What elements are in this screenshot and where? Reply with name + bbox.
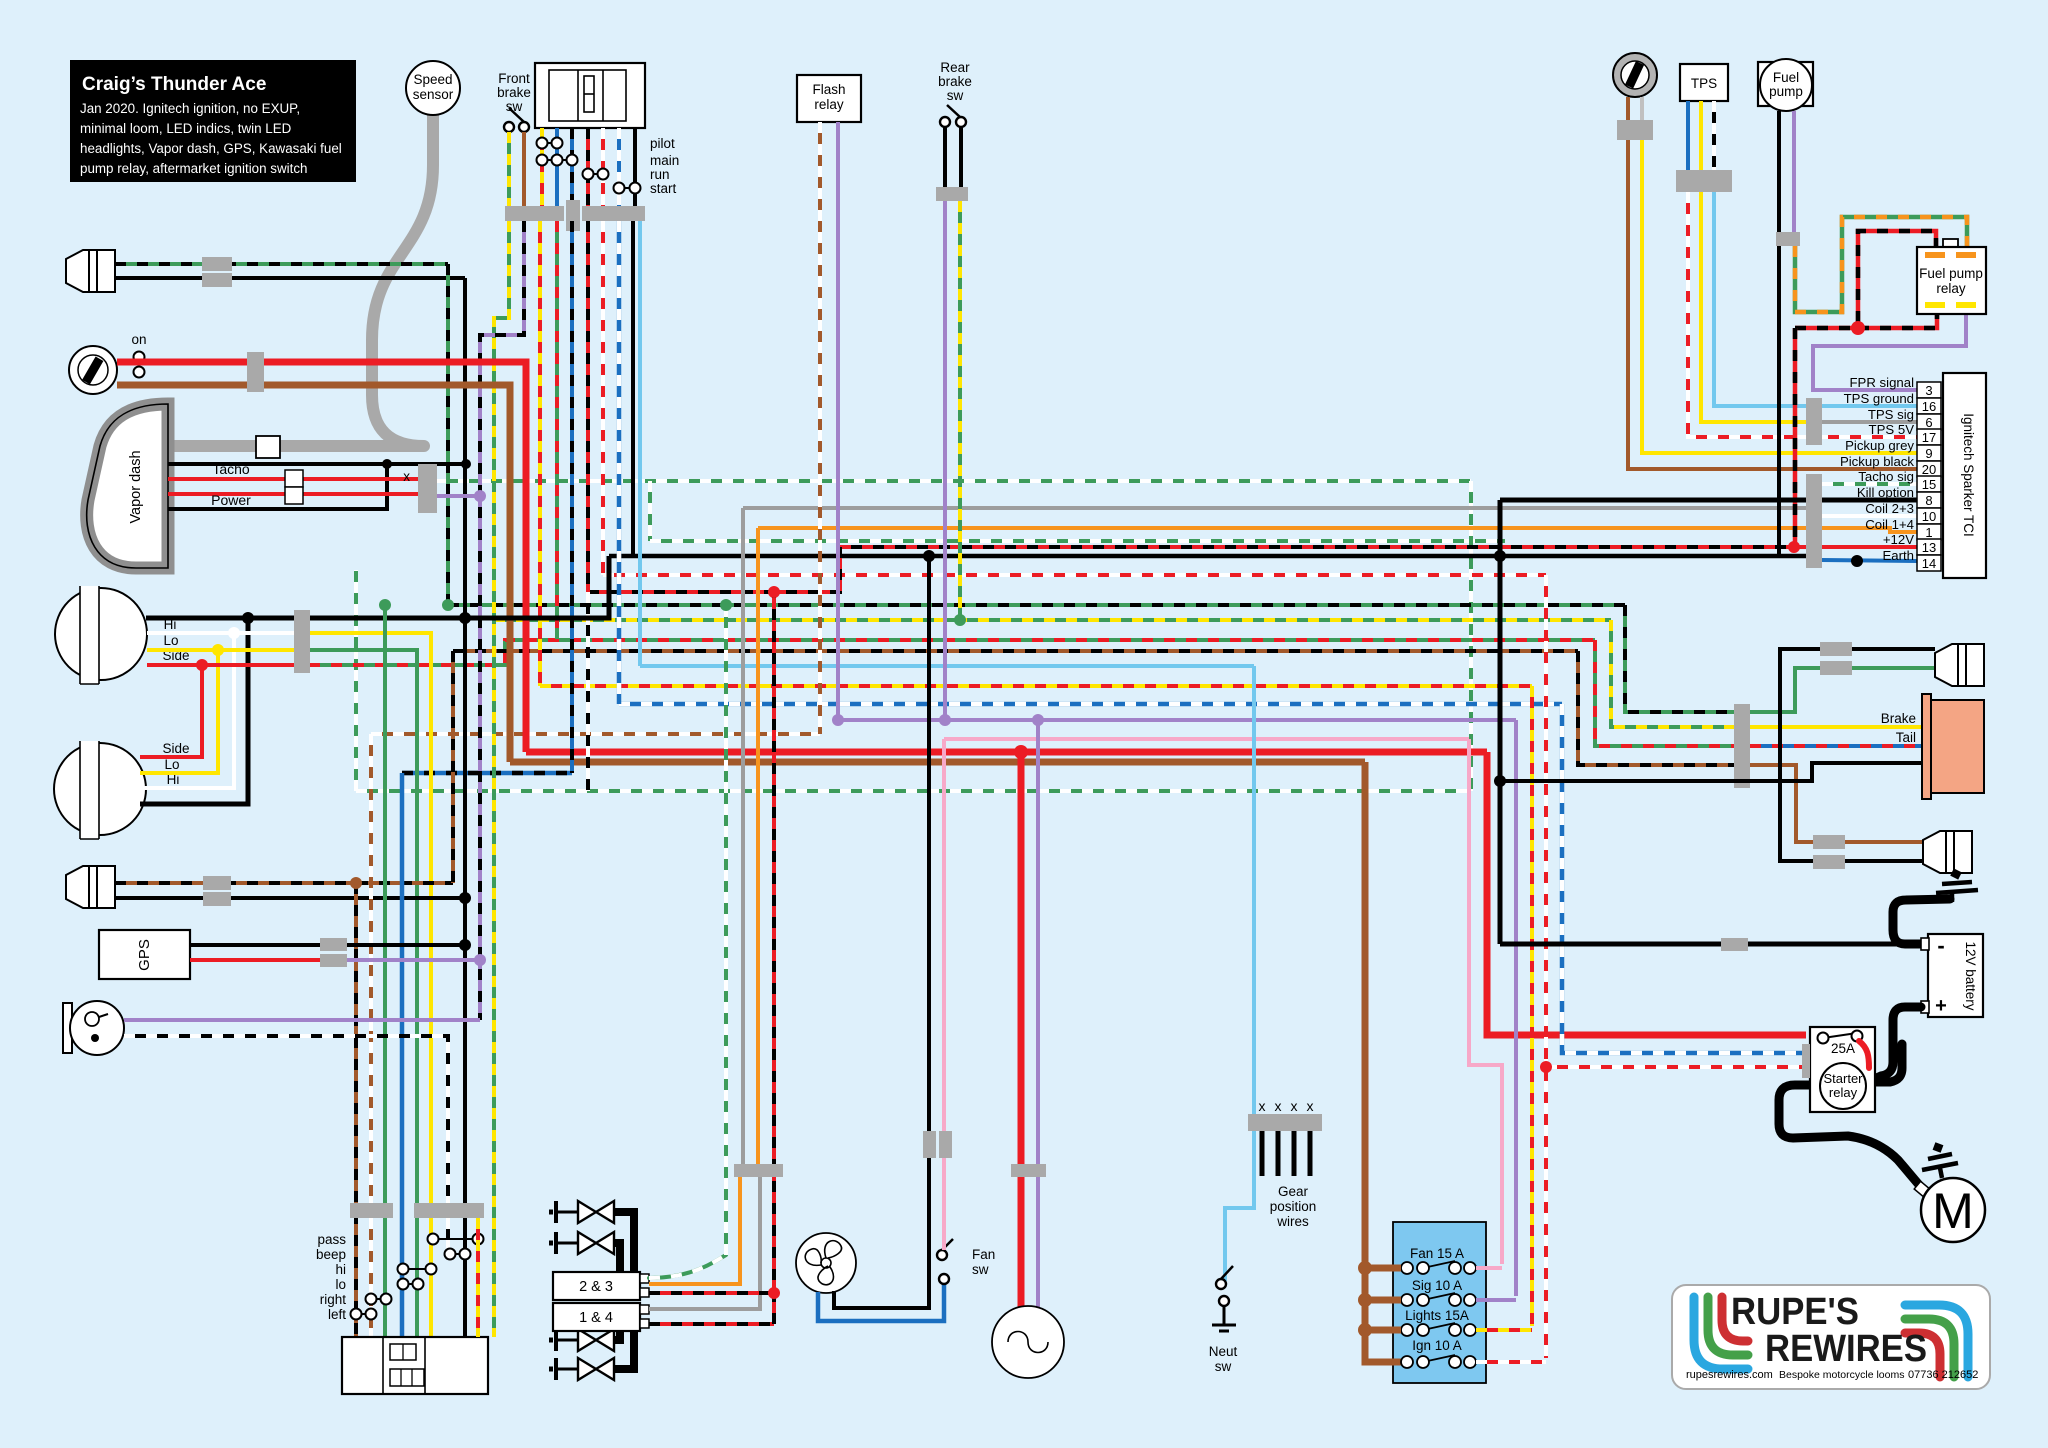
svg-text:17: 17 (1922, 430, 1936, 445)
wire coil2+3 white stub (1822, 514, 1917, 518)
wire pickup black wire (1628, 140, 1917, 469)
svg-text:position: position (1270, 1199, 1317, 1214)
connector headlight conn (294, 610, 310, 673)
wire coil grey (649, 1177, 760, 1309)
connector fan conn2 (939, 1131, 952, 1158)
svg-text:hi: hi (335, 1262, 346, 1277)
wire tail green (1750, 668, 1935, 712)
wire fan black (834, 556, 929, 1308)
wire +12V red stub (1794, 545, 1917, 549)
connector fuel pump conn (1776, 232, 1800, 246)
wire pink fan drop (942, 739, 946, 1250)
svg-text:TPS 5V: TPS 5V (1869, 422, 1915, 437)
wire green/white tacho bus (436, 479, 1471, 483)
tci pin 15 (1917, 476, 1941, 492)
diode y1369 (549, 1358, 614, 1380)
wire green/white loop vert (1469, 481, 1473, 791)
wire brown/white bus (371, 732, 820, 736)
svg-text:2 & 3: 2 & 3 (579, 1279, 613, 1295)
svg-text:25A: 25A (1831, 1041, 1855, 1056)
wire grey bus coil (743, 506, 1806, 510)
wire green/black left vert (446, 264, 450, 605)
connector gps conn1 (320, 938, 347, 951)
svg-text:20: 20 (1922, 462, 1936, 477)
svg-text:x: x (1307, 1098, 1314, 1114)
svg-text:relay: relay (1829, 1085, 1858, 1100)
svg-text:Brake: Brake (1881, 711, 1916, 726)
tci pin 10 (1917, 508, 1941, 524)
switch contacts pass (428, 1234, 484, 1245)
connector bar mid (566, 200, 580, 231)
wire fuse stub 1300 (1365, 1297, 1401, 1304)
svg-text:M: M (1932, 1183, 1974, 1239)
svg-text:headlights, Vapor dash, GPS, K: headlights, Vapor dash, GPS, Kawasaki fu… (80, 141, 342, 156)
wire blue/white bus (619, 702, 1562, 707)
wire gps red (190, 958, 322, 962)
wire find green/black (115, 262, 448, 266)
wire tail yellow brake (1750, 725, 1929, 729)
wire coil red/black 1+4 (649, 1322, 774, 1326)
wire coil green/white vert (724, 605, 728, 1255)
svg-text:3: 3 (1925, 383, 1932, 398)
svg-text:main: main (650, 153, 679, 168)
rear indicator top (1935, 644, 1984, 686)
fuel pump bracket (1758, 62, 1813, 106)
wire speed sensor cable (170, 112, 433, 446)
wire tail brown (1750, 765, 1926, 842)
node fuse node 1300 (1358, 1293, 1372, 1307)
connector find conn1 (202, 257, 232, 271)
wire battery plus cable (1872, 1007, 1921, 1080)
connector battery bus conn (1721, 938, 1748, 951)
svg-text:FPR signal: FPR signal (1850, 375, 1915, 390)
wire fan blue (818, 1284, 944, 1321)
wire brown/white vert (369, 734, 373, 1337)
svg-text:Front: Front (498, 71, 530, 86)
switch contacts pilot (537, 138, 563, 149)
wire green/white loop left (354, 570, 358, 791)
wire red/white drop top (601, 128, 605, 206)
wire neut stem (1223, 1306, 1226, 1325)
wire red/black 12V bus (588, 547, 1794, 592)
tail light (1922, 694, 1931, 799)
speed sensor (406, 61, 460, 115)
wire fpr purple out (1813, 314, 1966, 390)
node green/black node (442, 599, 454, 611)
connector pickup conn (1617, 120, 1653, 140)
node hi white node (228, 627, 240, 639)
starter motor ground (1922, 1146, 1958, 1178)
connector tail conn (1734, 704, 1750, 788)
wire red/black vert (586, 221, 590, 592)
svg-text:07736 212652: 07736 212652 (1908, 1369, 1978, 1381)
coil 1+4 (553, 1303, 640, 1331)
wire green/black tail drop (1625, 605, 1735, 712)
svg-text:-: - (1937, 933, 1944, 958)
svg-text:minimal loom, LED indics, twin: minimal loom, LED indics, twin LED (80, 121, 292, 136)
wire hi yellow right (310, 633, 431, 1337)
wire tail black top (1780, 649, 1935, 861)
svg-text:REWIRES: REWIRES (1765, 1328, 1927, 1370)
wire orange bus coil (758, 528, 1917, 532)
connector tps conn (1676, 170, 1732, 192)
svg-text:pass: pass (317, 1232, 346, 1247)
wire hl1 hi white (147, 631, 294, 635)
wire green/yellow bus (494, 618, 1611, 622)
wire tps sig grey stub (1822, 420, 1917, 424)
svg-text:right: right (320, 1292, 347, 1307)
wire battery black bus (1500, 942, 1924, 947)
headlight 2 (54, 741, 146, 839)
wire fuel pump purple lead (1792, 111, 1796, 234)
svg-text:TPS sig: TPS sig (1868, 407, 1914, 422)
coil 2+3 (553, 1272, 640, 1300)
node hl black node2 (459, 612, 471, 624)
node find2 black node (459, 892, 471, 904)
node red/black bus node (768, 586, 780, 598)
wire rear brake wire L (943, 127, 947, 187)
switch contacts right (366, 1294, 392, 1305)
wire relay to motor cable (1779, 1085, 1920, 1186)
wire battery minus cable (1893, 899, 1950, 944)
wire red/green side bus (309, 640, 1595, 665)
wire light blue vert (638, 221, 642, 666)
wire blue vert left (400, 773, 405, 1337)
wire blue/white drop top (617, 128, 621, 206)
node gps black node (459, 939, 471, 951)
wire hl black (146, 556, 609, 618)
svg-text:Pickup grey: Pickup grey (1845, 438, 1914, 453)
svg-text:Flash: Flash (812, 82, 845, 97)
wire red/yellow bus (540, 684, 1532, 688)
tci pin 20 (1917, 461, 1941, 477)
node earth bus node (1494, 550, 1506, 562)
wire fuse stub 1330 (1365, 1327, 1401, 1334)
wire find black (115, 276, 465, 280)
wire relay red link (1859, 1041, 1869, 1068)
wire green/black bus (448, 603, 1625, 607)
wire neut light blue (1225, 666, 1254, 1281)
svg-text:TPS ground: TPS ground (1844, 391, 1914, 406)
wire brown/black vert down (354, 883, 358, 1337)
node hl black node1 (242, 612, 254, 624)
vapor grey connector (256, 436, 280, 458)
connector bar right (582, 206, 645, 221)
wire coil orange up (756, 528, 760, 1164)
svg-text:1: 1 (1925, 525, 1932, 540)
connector gear conn (1248, 1114, 1322, 1131)
wire power purple link (437, 494, 480, 498)
node green/yellow node (954, 614, 966, 626)
wire black start vert (631, 221, 635, 556)
wire fpr red/black to12v (1793, 328, 1798, 547)
svg-text:GPS: GPS (136, 939, 153, 971)
flash relay (797, 75, 861, 122)
wire rear brake purple (943, 201, 947, 720)
handlebar switch housing (535, 63, 645, 128)
connector x connector (418, 464, 437, 513)
wire tail light black (1500, 763, 1929, 781)
svg-text:x: x (1275, 1098, 1282, 1114)
svg-text:Side: Side (162, 741, 189, 756)
wire red main bus (526, 749, 1487, 756)
wire coil green/white curve (649, 1255, 726, 1278)
node tail black node (1494, 775, 1506, 787)
wire diode link y1369 (614, 1331, 634, 1369)
wire red/white relay branch (1546, 1065, 1806, 1069)
node brown/black node (350, 877, 362, 889)
svg-text:wires: wires (1276, 1214, 1309, 1229)
wire diode link y1212 (614, 1212, 634, 1272)
wire green/white riser (648, 481, 652, 541)
node vapor black node1 (382, 459, 392, 469)
wire rear brake green/yellow (958, 201, 962, 620)
node coil red/black node (768, 1287, 780, 1299)
wire find2 brown/black (115, 881, 453, 885)
headlight 1 (55, 586, 147, 684)
node fuse node 1268 (1358, 1261, 1372, 1275)
switch contacts left (351, 1309, 377, 1320)
svg-text:sensor: sensor (413, 87, 454, 102)
svg-text:12V battery: 12V battery (1963, 941, 1978, 1010)
lsw fuse2 (390, 1369, 424, 1386)
connector fan conn1 (923, 1131, 936, 1158)
wire fuse brown feed (1365, 762, 1401, 1362)
wire tps yellow lead (1699, 101, 1703, 170)
connector tail green conn (1820, 661, 1852, 675)
wire black start drop (633, 128, 637, 206)
svg-text:x: x (1291, 1098, 1298, 1114)
wire horn purple (124, 1018, 480, 1022)
svg-text:pilot: pilot (650, 136, 675, 151)
tci pin 9 (1917, 445, 1941, 461)
node green mid node (379, 599, 391, 611)
tci pin 16 (1917, 398, 1941, 414)
svg-text:RUPE'S: RUPE'S (1731, 1291, 1859, 1333)
node coil gw node (720, 599, 732, 611)
wire red/yellow left vert (476, 1218, 480, 1337)
wire fuse stub 1268 (1365, 1265, 1401, 1272)
TPS box (1680, 64, 1728, 101)
svg-text:Pickup black: Pickup black (1840, 454, 1914, 469)
wire fuse red/white out (1476, 1360, 1546, 1364)
wire horn black/white (124, 1036, 448, 1254)
connector tci conn upper (1806, 398, 1822, 445)
wire red/yellow vert (538, 221, 542, 686)
wire pickup brown lead (1626, 97, 1630, 120)
starter motor (1914, 1181, 1930, 1196)
wire red/yellow drop top (540, 128, 544, 206)
switch contacts hi (398, 1264, 437, 1275)
wire blue/white vert (617, 221, 622, 704)
connector tci conn lower (1806, 474, 1822, 568)
svg-text:Sig 10 A: Sig 10 A (1412, 1278, 1462, 1293)
wire blue/black low bus (402, 771, 572, 776)
starter relay contacts (1823, 1033, 1857, 1038)
svg-text:Neut: Neut (1209, 1344, 1238, 1359)
wire earth blue stub (1822, 560, 1917, 561)
wire brown/black bus (453, 649, 1578, 653)
wire coil red/black vert (772, 592, 776, 1324)
wire front brake lever (509, 108, 524, 122)
tci pin 3 (1917, 382, 1941, 398)
node gps purple node (474, 954, 486, 966)
horn (63, 1003, 72, 1053)
svg-text:Tail: Tail (1896, 730, 1916, 745)
wire red main drop (1487, 752, 1806, 1035)
wire tps blue lead (1686, 101, 1690, 170)
svg-text:15: 15 (1922, 477, 1936, 492)
svg-text:Tacho: Tacho (212, 461, 250, 477)
wire blue/white drop right (1562, 704, 1806, 1053)
wire light blue bus (640, 664, 1254, 668)
wire black left vert (463, 278, 467, 1337)
wire pickup grey lead (1640, 97, 1644, 120)
wire diode link y1340 (614, 1331, 620, 1340)
svg-text:Rear: Rear (940, 60, 970, 75)
svg-text:Fuel pump: Fuel pump (1919, 266, 1983, 281)
wire black main bus (609, 554, 1806, 559)
wire red/green vert (555, 221, 559, 640)
fuel pump relay (1943, 239, 1958, 249)
svg-text:x: x (403, 469, 410, 484)
wire vapor tacho red (168, 477, 418, 481)
svg-text:rupesrewires.com: rupesrewires.com (1686, 1369, 1773, 1381)
wire ignition red (117, 362, 526, 752)
wire purple drop right (1514, 720, 1518, 1296)
fuse box (1393, 1222, 1486, 1383)
wire vapor black right (387, 462, 466, 466)
connector tail black bot conn (1813, 855, 1845, 869)
tci body (1943, 373, 1986, 578)
wire fuse pink out (1476, 1266, 1502, 1270)
switch contacts beep (445, 1249, 471, 1260)
wire blue/black drop top (570, 128, 574, 206)
vapor dash (87, 404, 168, 568)
GPS box (99, 930, 190, 979)
wire blue drop top (555, 128, 559, 206)
tci pin 6 (1917, 414, 1941, 430)
wire red/white drop right (1544, 575, 1548, 1358)
svg-text:Bespoke motorcycle looms: Bespoke motorcycle looms (1779, 1369, 1904, 1381)
wire neut lever (1221, 1266, 1233, 1279)
fuel pump relay body (1917, 247, 1986, 314)
connector find2 conn1 (203, 876, 231, 890)
connector tail black top conn (1820, 642, 1852, 656)
rear indicator bottom (1923, 831, 1972, 873)
node side red node (196, 659, 208, 671)
svg-text:TPS: TPS (1691, 76, 1717, 91)
svg-text:Earth: Earth (1882, 548, 1914, 563)
svg-text:run: run (650, 167, 670, 182)
wire tps sig yellow (1701, 192, 1806, 422)
wire coil orange (649, 1177, 740, 1284)
svg-text:Fan 15 A: Fan 15 A (1410, 1246, 1464, 1261)
node purple node1 (832, 714, 844, 726)
wire fuse red/yellow out (1476, 1328, 1532, 1332)
svg-text:pump: pump (1769, 84, 1803, 99)
wire rear brake lever (947, 105, 960, 117)
wire fpr red/black loop (1858, 231, 1936, 328)
wire fpr red/black down (1795, 326, 1858, 331)
svg-text:relay: relay (1936, 281, 1966, 296)
svg-text:x: x (1259, 1098, 1266, 1114)
diode y1340 (549, 1329, 614, 1351)
svg-text:start: start (650, 181, 677, 196)
wire green/yellow fbrake drop (507, 132, 511, 206)
node black bus node (923, 550, 935, 562)
wire green/white loop bus (356, 789, 1471, 793)
wire pink bus (944, 737, 1469, 741)
wire fuel pump black (1777, 111, 1781, 556)
node purple node3 (1032, 714, 1044, 726)
wire brown fbrake drop (522, 132, 526, 206)
svg-text:Coil 1+4: Coil 1+4 (1865, 517, 1914, 532)
wire red/white bus (603, 573, 1546, 577)
fuel pump (1760, 59, 1812, 111)
svg-text:+12V: +12V (1883, 532, 1914, 547)
svg-text:pump relay, aftermarket igniti: pump relay, aftermarket ignition switch (80, 161, 307, 176)
wire purple/black vert (480, 221, 524, 1020)
svg-text:Ignitech Sparker TCI: Ignitech Sparker TCI (1961, 413, 1976, 537)
wire coil red/black 2+3 (649, 1291, 774, 1295)
wire tps ground lblue (1714, 192, 1917, 406)
wire hl lo yellow link (140, 650, 218, 773)
wire red/white vert top (601, 221, 605, 575)
switch contacts run (583, 169, 609, 180)
wire relay out cable (1866, 1044, 1902, 1082)
svg-text:brake: brake (938, 74, 972, 89)
wire fuse purple out (1476, 1298, 1516, 1302)
vapor tacho conn (285, 470, 303, 487)
connector coil bundle conn (734, 1164, 783, 1177)
front indicator lower (66, 866, 115, 908)
svg-text:Coil 2+3: Coil 2+3 (1865, 501, 1914, 516)
wire hl side red link (140, 665, 202, 757)
wire hl1 lo yellow (147, 648, 294, 652)
wire blue/black vert (570, 221, 574, 773)
wire gps black (190, 943, 465, 947)
wire tacho sig stub (1822, 482, 1917, 486)
diode y1212 (549, 1201, 614, 1223)
wire gps purple (340, 958, 480, 962)
svg-text:brake: brake (497, 85, 531, 100)
connector lsw conn1 (350, 1203, 393, 1218)
svg-text:Lo: Lo (164, 757, 179, 772)
svg-text:14: 14 (1922, 556, 1936, 571)
ground symbol battery (1936, 872, 1978, 902)
wire black kill vert (1498, 500, 1503, 944)
wire fpr red/black right (1858, 312, 1937, 328)
svg-text:left: left (328, 1307, 346, 1322)
switch contacts main (537, 155, 578, 166)
connector relay conn (1802, 1044, 1810, 1078)
connector lsw conn2 (414, 1203, 484, 1218)
wire red/black drop top (586, 128, 590, 206)
wire hl1 side red (147, 663, 309, 667)
wire fan sw lever (942, 1239, 953, 1250)
connector rear brake conn (936, 187, 968, 201)
wire diode link y1243 (614, 1243, 620, 1272)
wire pickup grey wire (1642, 140, 1917, 453)
node fuse node 1330 (1358, 1323, 1372, 1337)
wire vapor black top (168, 464, 387, 509)
wire black/white vert mid (586, 592, 590, 791)
node power purple node (474, 490, 486, 502)
switch knob (584, 76, 594, 112)
svg-text:sw: sw (1215, 1359, 1232, 1374)
wire brown/black vert up (451, 651, 455, 883)
